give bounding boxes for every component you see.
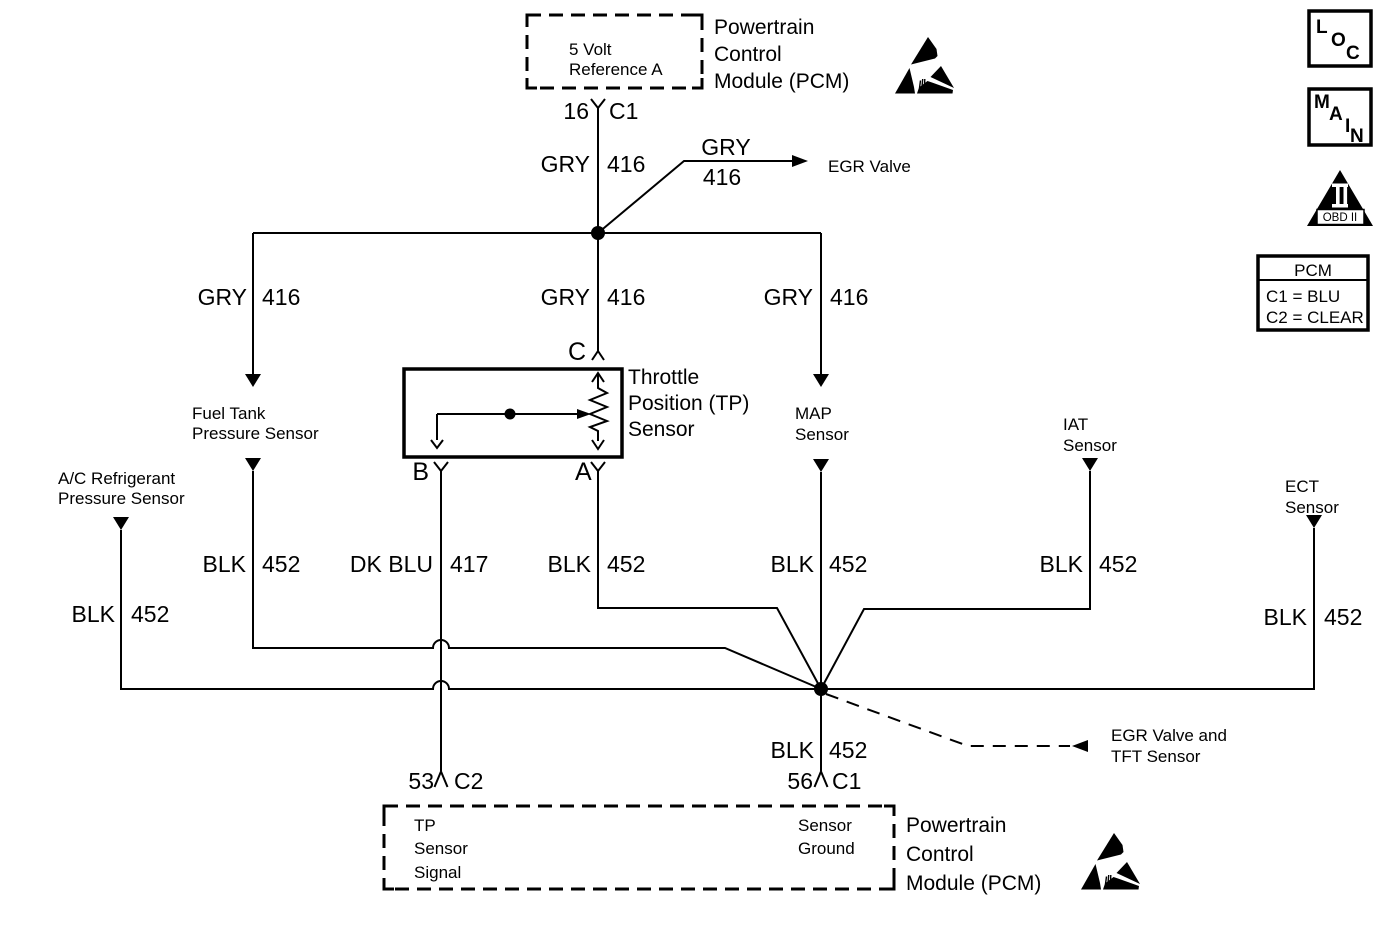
svg-text:Pressure Sensor: Pressure Sensor: [58, 489, 185, 508]
svg-text:417: 417: [450, 551, 488, 577]
svg-text:416: 416: [607, 151, 645, 177]
LOC reference box: [1309, 11, 1371, 66]
svg-text:416: 416: [830, 284, 868, 310]
svg-text:5 Volt: 5 Volt: [569, 40, 612, 59]
svg-text:Sensor: Sensor: [1063, 436, 1117, 455]
svg-text:BLK: BLK: [771, 737, 815, 763]
svg-text:PCM: PCM: [1294, 261, 1332, 280]
wiper leg to pin B: [436, 414, 438, 440]
svg-text:Throttle: Throttle: [628, 366, 699, 389]
wire BLK 452 from pin A: [598, 471, 821, 689]
wire GRY 416 centre drop to TP sensor pin C: [597, 233, 599, 351]
svg-text:GRY: GRY: [701, 134, 750, 160]
junction node top: [591, 226, 605, 240]
svg-text:GRY: GRY: [541, 284, 590, 310]
svg-text:BLK: BLK: [1040, 551, 1084, 577]
wiper node dot: [505, 409, 516, 420]
stub arrow from IAT sensor: [1082, 458, 1098, 471]
svg-text:Pressure Sensor: Pressure Sensor: [192, 424, 319, 443]
Throttle Position Sensor box: [404, 369, 622, 457]
connector fork pin 16 C1: [591, 99, 605, 108]
stub arrow from MAP sensor: [813, 459, 829, 472]
svg-text:Reference A: Reference A: [569, 60, 663, 79]
wire GRY 416 right drop to MAP sensor: [820, 233, 822, 375]
down arrowhead of element: [592, 440, 604, 449]
OBD II symbol: [1307, 170, 1373, 226]
svg-text:BLK: BLK: [203, 551, 247, 577]
svg-text:DK BLU: DK BLU: [350, 551, 433, 577]
connector fork pin B: [434, 462, 448, 471]
svg-text:BLK: BLK: [1264, 604, 1308, 630]
dashed wire to EGR Valve and TFT Sensor: [826, 694, 1070, 746]
svg-text:O: O: [1331, 30, 1346, 51]
svg-text:Sensor: Sensor: [798, 816, 852, 835]
up arrowhead of element: [592, 373, 604, 382]
ground junction node: [814, 682, 828, 696]
svg-text:BLK: BLK: [72, 601, 116, 627]
svg-text:Sensor: Sensor: [795, 425, 849, 444]
svg-text:16: 16: [563, 98, 589, 124]
stub arrow from Fuel Tank Pressure Sensor: [245, 458, 261, 471]
svg-text:Control: Control: [906, 843, 974, 866]
svg-text:EGR Valve: EGR Valve: [828, 157, 911, 176]
svg-text:452: 452: [1324, 604, 1362, 630]
PCM bottom dashed box: [384, 806, 894, 889]
svg-text:B: B: [412, 458, 429, 486]
stub arrow from A/C refrigerant pressure sensor: [113, 517, 129, 530]
svg-text:OBD II: OBD II: [1323, 212, 1358, 224]
arrowhead from EGR Valve and TFT Sensor: [1072, 740, 1088, 752]
svg-text:GRY: GRY: [198, 284, 247, 310]
svg-text:416: 416: [607, 284, 645, 310]
connector fork pin 53: [435, 772, 448, 788]
svg-text:452: 452: [829, 737, 867, 763]
svg-text:M: M: [1314, 92, 1330, 113]
svg-text:A: A: [575, 458, 592, 486]
svg-text:452: 452: [131, 601, 169, 627]
svg-text:GRY: GRY: [541, 151, 590, 177]
PCM 5 Volt Reference dashed box: [527, 15, 702, 88]
svg-text:BLK: BLK: [771, 551, 815, 577]
svg-text:C1: C1: [609, 98, 638, 124]
svg-text:Module (PCM): Module (PCM): [906, 872, 1041, 895]
svg-text:EGR Valve and: EGR Valve and: [1111, 726, 1227, 745]
wire BLK 452 from fuel tank pressure sensor: [253, 471, 821, 689]
potentiometer resistive element: [590, 373, 607, 441]
svg-text:C2: C2: [454, 768, 483, 794]
svg-text:GRY: GRY: [764, 284, 813, 310]
svg-text:Sensor: Sensor: [414, 839, 468, 858]
wire branch to EGR Valve: [598, 161, 792, 233]
svg-text:Control: Control: [714, 43, 782, 66]
wire GRY 416 left drop to Fuel Tank Pressure Sensor: [252, 233, 254, 375]
connector fork pin 56: [815, 772, 828, 788]
svg-text:MAP: MAP: [795, 404, 832, 423]
svg-text:ECT: ECT: [1285, 477, 1319, 496]
svg-text:BLK: BLK: [548, 551, 592, 577]
svg-text:L: L: [1316, 17, 1328, 38]
svg-text:416: 416: [262, 284, 300, 310]
svg-text:Module (PCM): Module (PCM): [714, 70, 849, 93]
svg-text:Position (TP): Position (TP): [628, 392, 749, 415]
svg-text:C: C: [1346, 43, 1360, 64]
svg-text:A/C Refrigerant: A/C Refrigerant: [58, 469, 175, 488]
arrowhead to EGR Valve: [792, 155, 808, 167]
wire BLK 452 from IAT sensor: [821, 471, 1090, 689]
MAIN reference box: [1309, 89, 1371, 145]
connector fork pin A: [591, 462, 605, 471]
ESD icon bottom: [1081, 833, 1140, 890]
svg-text:C2 = CLEAR: C2 = CLEAR: [1266, 308, 1364, 327]
svg-text:TFT Sensor: TFT Sensor: [1111, 747, 1201, 766]
svg-text:A: A: [1329, 104, 1343, 125]
svg-text:53: 53: [408, 768, 434, 794]
svg-text:Sensor: Sensor: [1285, 498, 1339, 517]
connector fork pin C: [592, 351, 604, 360]
top bus wire: [253, 232, 821, 234]
wire DK BLU 417 from pin B: [440, 471, 442, 771]
svg-text:IAT: IAT: [1063, 415, 1088, 434]
svg-text:Powertrain: Powertrain: [906, 814, 1006, 837]
wire GRY 416 from pin 16: [597, 108, 599, 233]
svg-text:452: 452: [607, 551, 645, 577]
wiper arm: [437, 413, 578, 415]
stub arrow from ECT sensor: [1306, 515, 1322, 528]
wire BLK 452 from MAP sensor: [820, 472, 822, 771]
svg-text:416: 416: [703, 164, 741, 190]
svg-text:Signal: Signal: [414, 863, 461, 882]
svg-text:TP: TP: [414, 816, 436, 835]
svg-text:452: 452: [829, 551, 867, 577]
svg-text:C1: C1: [832, 768, 861, 794]
PCM connector legend table: [1258, 256, 1368, 330]
svg-text:N: N: [1350, 126, 1364, 147]
svg-text:C1 = BLU: C1 = BLU: [1266, 287, 1340, 306]
svg-text:Fuel Tank: Fuel Tank: [192, 404, 266, 423]
svg-text:Ground: Ground: [798, 839, 855, 858]
svg-text:Powertrain: Powertrain: [714, 16, 814, 39]
ESD icon top: [895, 37, 954, 94]
svg-text:452: 452: [1099, 551, 1137, 577]
svg-text:56: 56: [787, 768, 813, 794]
svg-text:C: C: [568, 338, 586, 366]
svg-text:Sensor: Sensor: [628, 418, 695, 441]
wire BLK 452 ground bus: [121, 528, 1314, 689]
svg-text:452: 452: [262, 551, 300, 577]
